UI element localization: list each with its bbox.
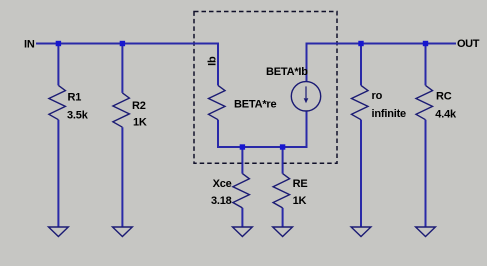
svg-text:RC: RC [436, 90, 452, 102]
svg-text:4.4k: 4.4k [435, 108, 457, 120]
svg-text:1K: 1K [293, 195, 307, 207]
svg-text:3.18: 3.18 [211, 195, 232, 207]
svg-text:R1: R1 [68, 91, 82, 103]
svg-text:BETA*re: BETA*re [234, 99, 276, 111]
svg-text:Ib: Ib [207, 56, 219, 66]
svg-text:Xce: Xce [213, 178, 232, 190]
svg-text:IN: IN [24, 39, 35, 51]
svg-text:R2: R2 [132, 100, 146, 112]
svg-text:ro: ro [372, 90, 383, 102]
svg-text:1K: 1K [133, 117, 147, 129]
svg-text:infinite: infinite [372, 108, 407, 120]
svg-text:RE: RE [293, 178, 308, 190]
svg-text:3.5k: 3.5k [67, 109, 89, 121]
svg-text:OUT: OUT [457, 38, 480, 50]
svg-text:BETA*Ib: BETA*Ib [266, 66, 308, 78]
